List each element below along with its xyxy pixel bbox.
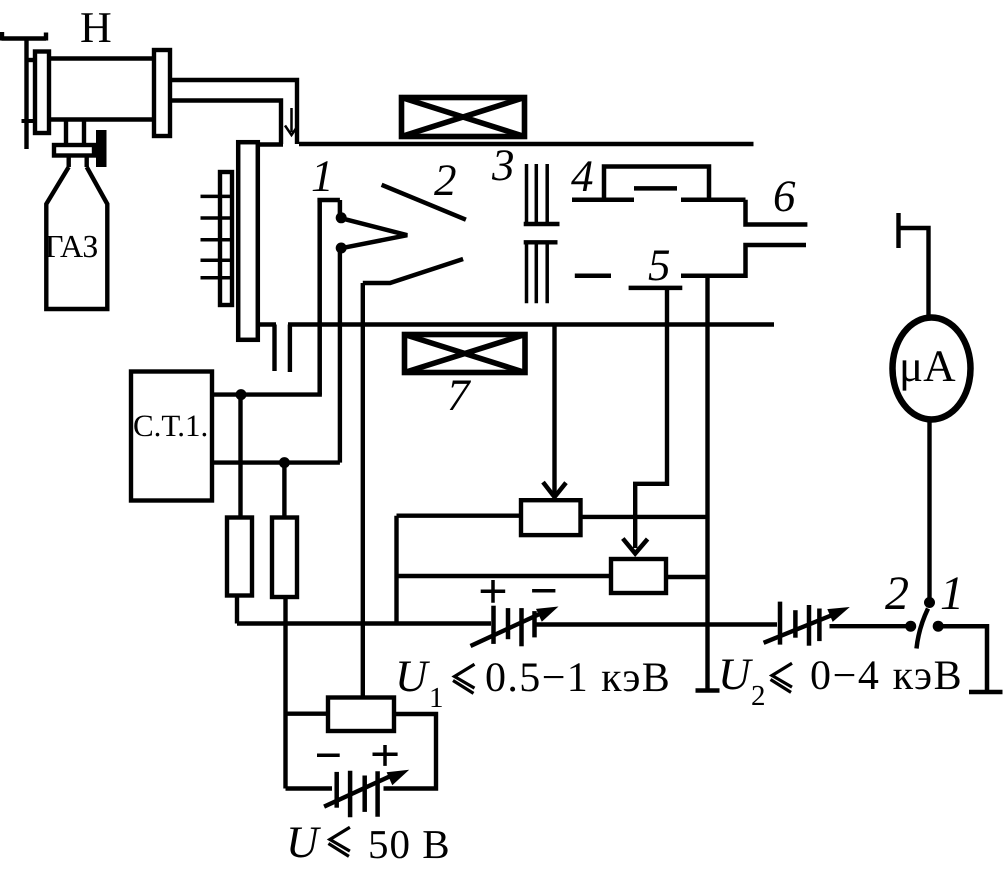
svg-text:U: U: [395, 651, 430, 701]
svg-text:U: U: [286, 817, 321, 867]
svg-text:50 В: 50 В: [368, 821, 451, 867]
svg-text:6: 6: [773, 171, 796, 221]
svg-text:С.Т.1.: С.Т.1.: [133, 408, 208, 443]
svg-text:1: 1: [940, 567, 964, 620]
svg-text:2: 2: [751, 680, 766, 712]
svg-text:U: U: [718, 649, 753, 699]
svg-text:2: 2: [885, 567, 909, 620]
svg-text:5: 5: [648, 240, 671, 290]
svg-text:3: 3: [491, 140, 515, 190]
svg-text:0.5−1 кэВ: 0.5−1 кэВ: [485, 655, 671, 701]
svg-text:4: 4: [571, 151, 594, 201]
svg-text:ГАЗ: ГАЗ: [45, 228, 98, 264]
svg-text:0−4 кэВ: 0−4 кэВ: [810, 653, 963, 699]
svg-text:μА: μА: [899, 341, 956, 391]
svg-text:2: 2: [434, 155, 457, 205]
svg-text:1: 1: [429, 682, 444, 714]
svg-text:1: 1: [311, 151, 334, 201]
svg-text:7: 7: [447, 370, 472, 420]
svg-text:Н: Н: [80, 3, 112, 52]
